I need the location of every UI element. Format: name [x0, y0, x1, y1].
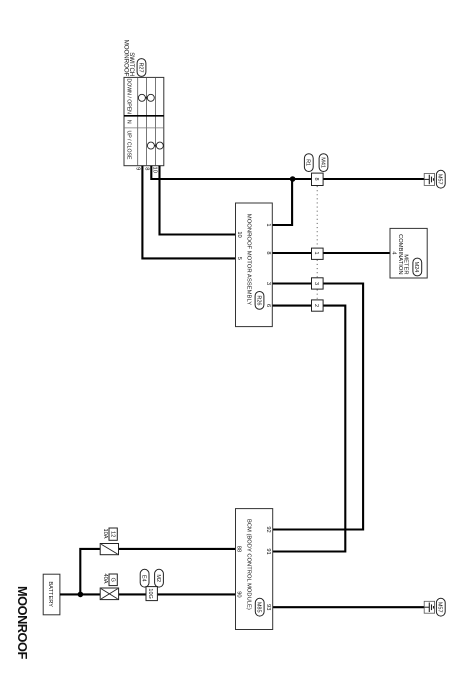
svg-text:M57: M57 — [437, 602, 443, 613]
svg-text:MOONROOF: MOONROOF — [15, 586, 30, 659]
connector oval E4 — [140, 569, 149, 587]
combination meter box — [390, 228, 427, 278]
svg-text:DOWN / OPEN: DOWN / OPEN — [125, 78, 131, 114]
svg-text:9: 9 — [135, 167, 141, 170]
connector oval R27 — [137, 59, 146, 77]
connector box 8 (R1/M41) — [312, 173, 324, 185]
fuse 10A (single diagonal) — [100, 544, 118, 555]
wire battery to 40A fusible link — [60, 593, 100, 595]
svg-text:BATTERY: BATTERY — [47, 581, 53, 607]
switch column line pin8 — [146, 77, 148, 165]
wire connector 1 to combination meter pin 4 — [323, 252, 390, 254]
fusible link letter box G — [109, 574, 117, 586]
svg-text:M2: M2 — [155, 574, 161, 582]
svg-text:12: 12 — [110, 531, 116, 537]
ground connector oval M57 (top) — [436, 170, 445, 188]
wire switch pin 9 to motor pin 5 — [142, 166, 235, 259]
wire 10G connector to BCM pin 90 — [157, 593, 235, 595]
svg-text:R26: R26 — [255, 295, 261, 305]
wire 40A fusible link to 10G connector — [119, 593, 147, 595]
svg-text:E4: E4 — [141, 575, 147, 582]
wire motor pin 8 to connector 1 — [272, 252, 311, 254]
svg-text:N: N — [125, 120, 131, 124]
svg-text:88: 88 — [236, 546, 242, 552]
ground symbol (bottom) — [424, 601, 434, 613]
svg-text:SWITCH: SWITCH — [128, 52, 135, 76]
svg-text:UP / CLOSE: UP / CLOSE — [125, 130, 131, 160]
switch contact circles DOWN/OPEN — [138, 94, 145, 101]
svg-text:1: 1 — [265, 223, 271, 226]
connector oval M24 — [413, 258, 422, 276]
ground symbol (top) — [424, 174, 434, 186]
svg-text:R1: R1 — [305, 159, 311, 166]
moonroof switch box — [124, 77, 164, 165]
switch column line pin10 — [155, 77, 157, 165]
svg-text:3: 3 — [265, 282, 271, 285]
moonroof switch label — [122, 40, 135, 77]
wire 10A fuse to BCM pin 88 — [119, 548, 236, 550]
svg-text:8: 8 — [265, 251, 271, 254]
connector oval R26 — [255, 292, 264, 310]
svg-text:M24: M24 — [413, 262, 419, 273]
wire connector 3 to BCM pin 92 — [273, 284, 363, 530]
wire switch pin 8 to ground line — [151, 166, 311, 179]
wire junction to motor pin 1 — [272, 179, 292, 225]
switch label column divider / column line pin9 — [137, 77, 139, 165]
connector box 1 — [312, 248, 324, 259]
svg-text:3: 3 — [313, 282, 319, 285]
svg-text:40A: 40A — [102, 573, 108, 583]
svg-text:METER: METER — [402, 254, 408, 274]
svg-text:MOONROOF MOTOR ASSEMBLY: MOONROOF MOTOR ASSEMBLY — [246, 214, 252, 305]
connector oval R1 — [304, 154, 313, 172]
svg-text:M41: M41 — [319, 157, 325, 168]
svg-text:M57: M57 — [437, 174, 443, 185]
svg-text:8: 8 — [313, 177, 319, 180]
svg-text:1: 1 — [313, 251, 319, 254]
switch section divider N - UP/CLOSE — [124, 127, 164, 129]
svg-text:R27: R27 — [137, 62, 143, 72]
connector oval M2 — [155, 569, 164, 587]
wire motor pin 3 to connector 3 — [272, 282, 311, 284]
svg-text:91: 91 — [265, 548, 271, 554]
svg-text:M85: M85 — [256, 602, 262, 613]
svg-text:G: G — [110, 578, 116, 582]
switch section divider DOWN/OPEN - N — [124, 115, 164, 117]
svg-text:BCM (BODY CONTROL MODULE): BCM (BODY CONTROL MODULE) — [246, 519, 252, 610]
connector box 3 — [312, 278, 324, 289]
connector oval M85 — [255, 598, 264, 616]
svg-text:10: 10 — [236, 231, 242, 237]
svg-text:92: 92 — [265, 526, 271, 532]
connector box 10G — [146, 587, 157, 601]
fuse number box 12 — [109, 528, 117, 540]
fusible link 40A (X box) — [100, 588, 118, 600]
connector box 2 — [312, 300, 324, 311]
moonroof motor assembly box — [236, 203, 273, 327]
switch contact circles UP/CLOSE — [147, 142, 154, 149]
wire ground line right of connector 8 to ground M57 — [323, 178, 424, 180]
svg-text:93: 93 — [265, 604, 271, 610]
junction node on ground line — [290, 176, 296, 182]
wire motor pin 6 to connector 2 — [272, 305, 311, 307]
wire junction up to 10A fuse — [80, 549, 100, 595]
wire connector 2 to BCM pin 91 — [273, 306, 346, 552]
svg-text:5: 5 — [236, 257, 242, 260]
svg-text:8: 8 — [144, 167, 150, 170]
svg-text:10A: 10A — [102, 528, 108, 538]
svg-text:COMBINATION: COMBINATION — [397, 234, 403, 274]
svg-text:4: 4 — [390, 251, 396, 254]
svg-text:90: 90 — [236, 591, 242, 597]
wire switch pin 10 to motor pin 10 — [160, 166, 236, 235]
wire BCM pin 93 to ground (bottom) — [273, 606, 425, 608]
connector oval M41 — [319, 154, 328, 172]
connector pass-through dotted link R1/M41 — [316, 186, 318, 300]
ground connector oval M57 (bottom) — [436, 598, 445, 616]
BCM box — [236, 509, 273, 630]
svg-text:2: 2 — [313, 304, 319, 307]
svg-text:6: 6 — [265, 304, 271, 307]
svg-text:10G: 10G — [147, 588, 153, 598]
junction node battery feed — [78, 592, 84, 598]
battery box — [43, 574, 60, 615]
